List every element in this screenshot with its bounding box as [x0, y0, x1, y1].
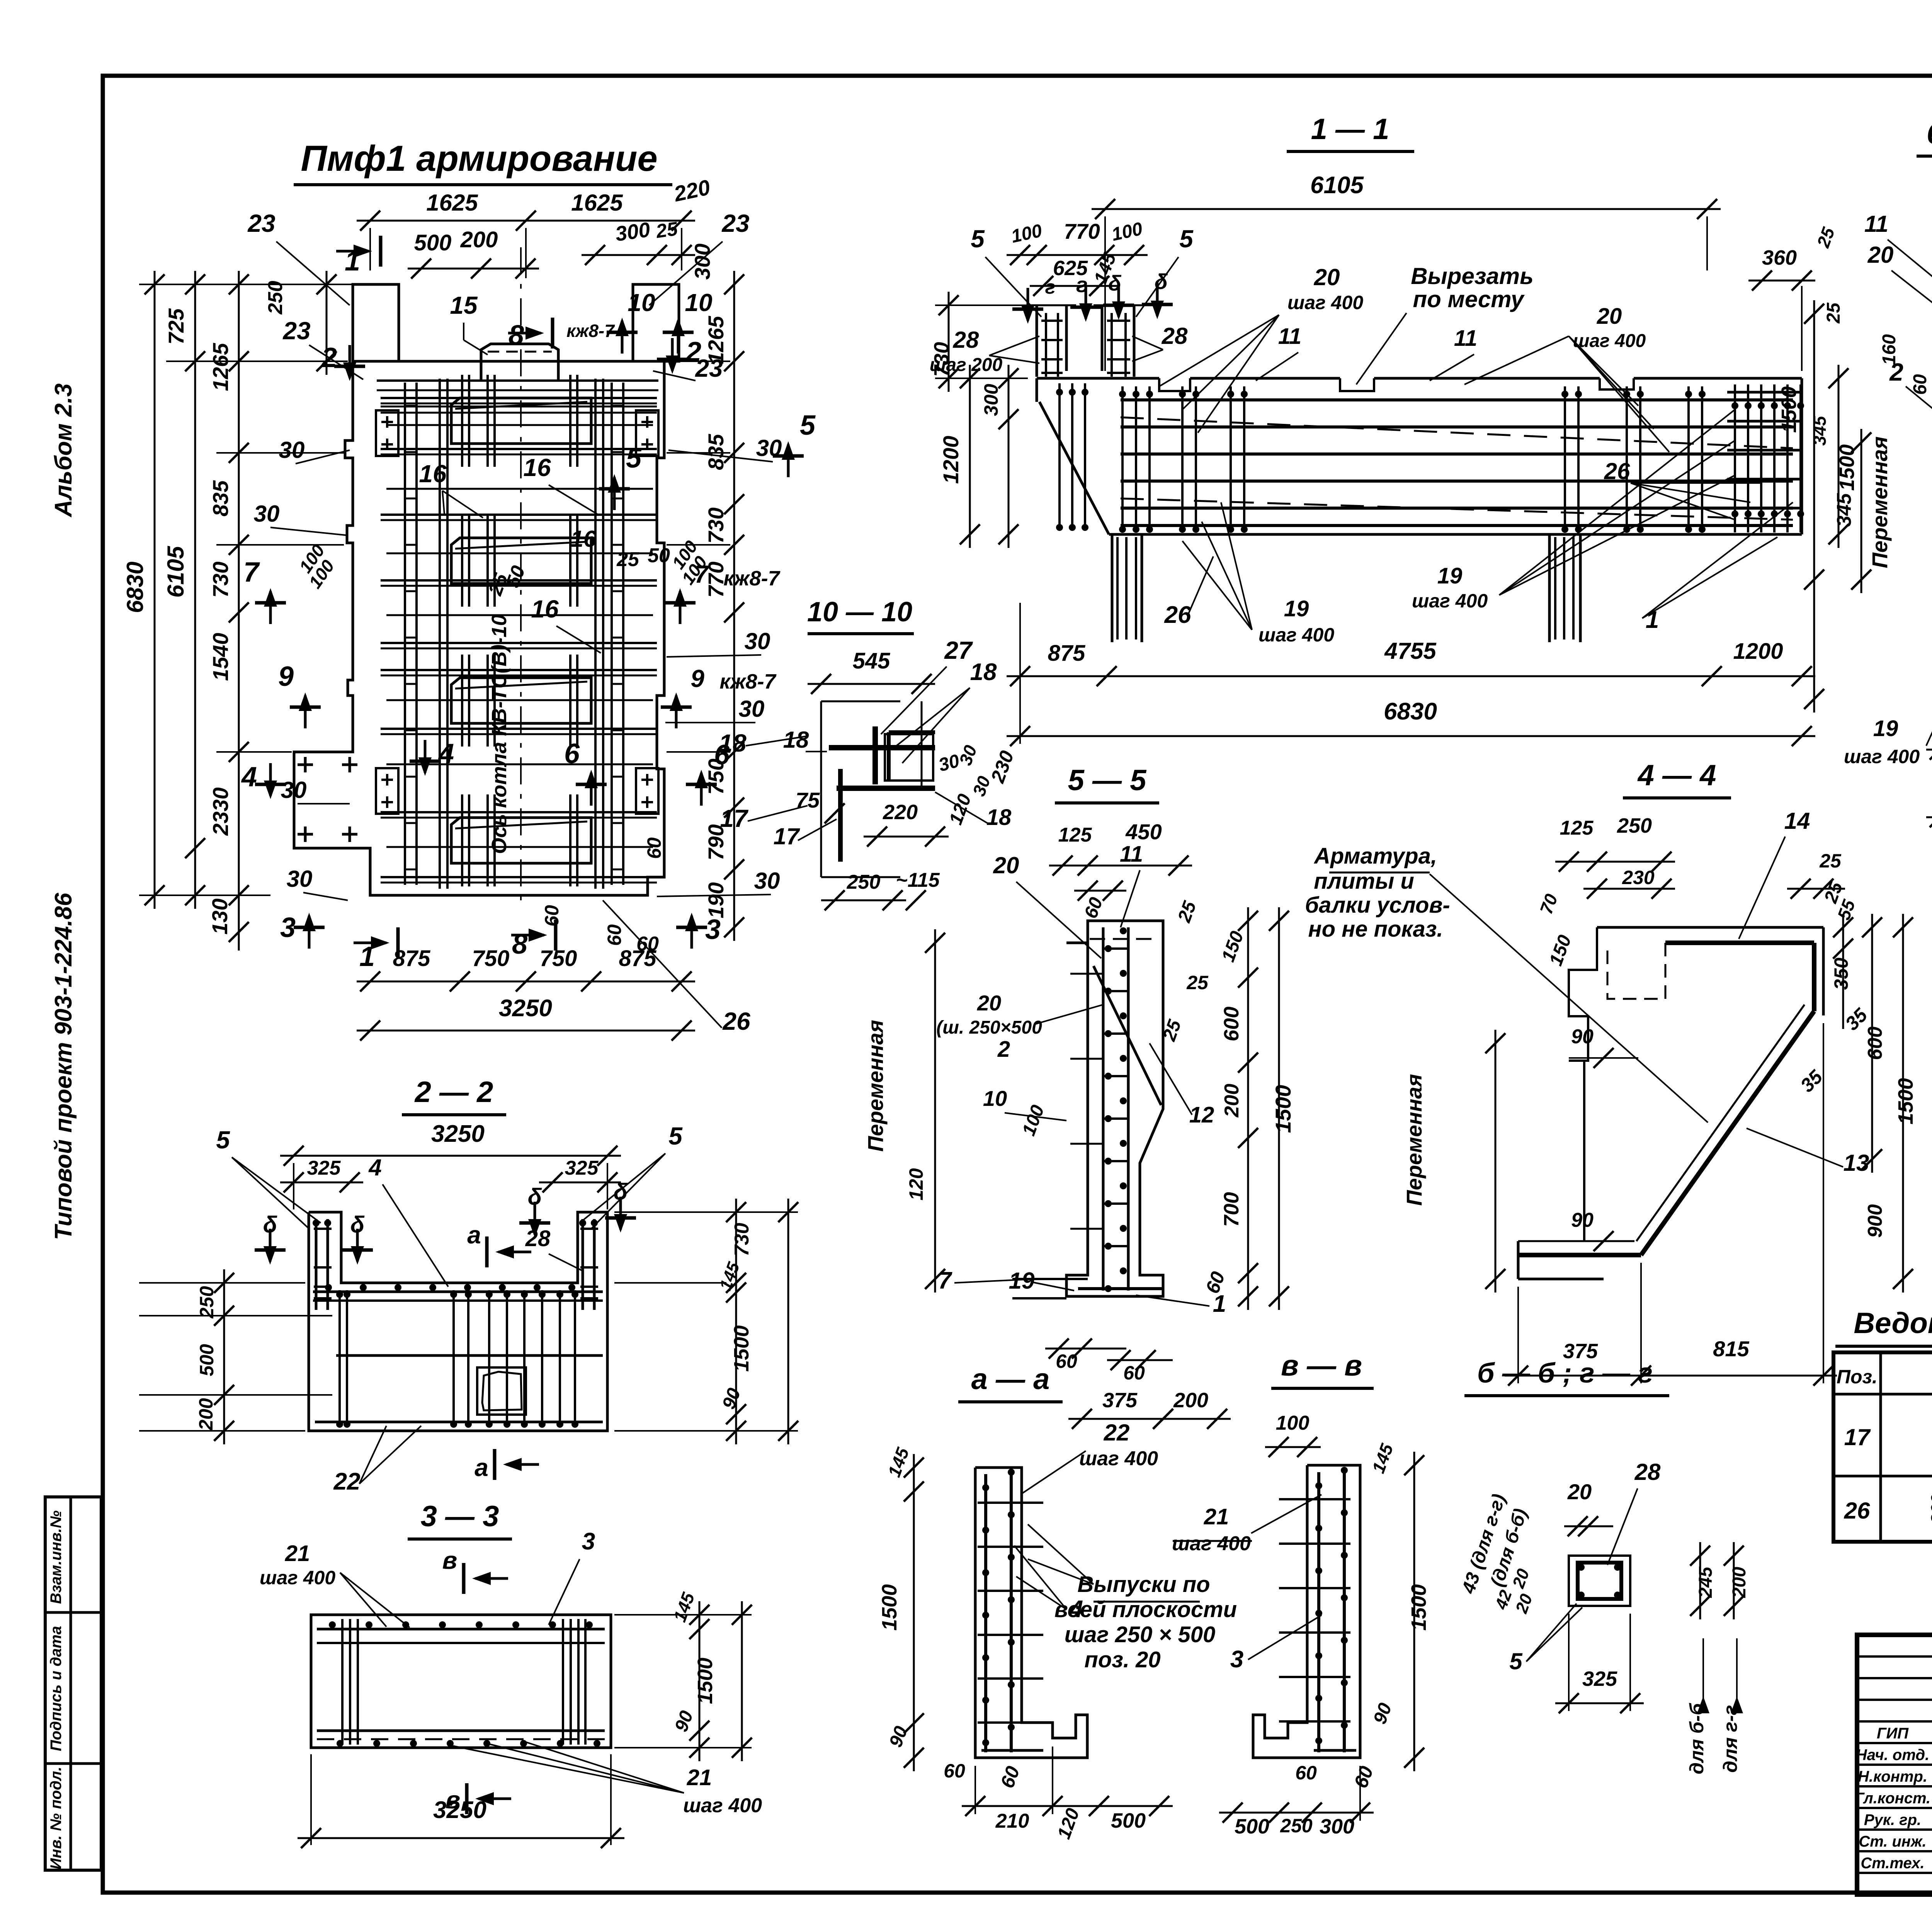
section в-в labels [1172, 1412, 1430, 1838]
svg-text:75: 75 [796, 788, 820, 812]
svg-text:20: 20 [1867, 242, 1894, 268]
section 1-1 bottom dimensions [1007, 603, 1815, 746]
svg-text:130: 130 [207, 898, 232, 934]
table sketch поз.26 [1927, 1494, 1932, 1524]
section 4-4 top dimensions [1555, 808, 1847, 939]
section 5-5 labels [863, 852, 1295, 1429]
svg-text:Ст.тех.: Ст.тех. [1861, 1855, 1924, 1872]
svg-text:1500: 1500 [694, 1658, 717, 1704]
svg-text:12: 12 [1189, 1102, 1214, 1128]
svg-text:для г-г: для г-г [1719, 1705, 1741, 1772]
svg-text:3: 3 [582, 1528, 595, 1555]
svg-text:а: а [467, 1221, 481, 1249]
left stamp strip table [45, 1497, 101, 1870]
svg-text:100: 100 [1276, 1412, 1310, 1434]
svg-text:1200: 1200 [1733, 639, 1783, 664]
section 4-4 note text [1305, 844, 1708, 1122]
svg-text:1500: 1500 [1894, 1078, 1917, 1124]
section 1-1 top dimension 6105 [1092, 172, 1721, 371]
svg-text:21: 21 [285, 1541, 310, 1566]
section 4-4 labels [1402, 891, 1917, 1386]
svg-text:60: 60 [541, 905, 563, 927]
svg-text:шаг 400: шаг 400 [683, 1794, 762, 1817]
svg-text:шаг 400: шаг 400 [1844, 746, 1920, 767]
svg-text:17: 17 [720, 804, 749, 832]
plan horizontal bar pairs [381, 398, 657, 883]
svg-text:28: 28 [1162, 323, 1188, 349]
svg-text:Переменная: Переменная [1402, 1074, 1426, 1206]
svg-text:30: 30 [287, 866, 313, 892]
svg-text:1540: 1540 [208, 633, 233, 681]
svg-text:5: 5 [800, 410, 816, 441]
svg-text:25: 25 [1186, 972, 1209, 993]
svg-text:17: 17 [1844, 1424, 1871, 1450]
section 10-10 dimension 545 [808, 648, 935, 694]
svg-text:325: 325 [307, 1157, 341, 1179]
section в-в rebar [1279, 1467, 1356, 1752]
svg-text:60: 60 [643, 837, 665, 859]
section 2-2 rebar [313, 1219, 603, 1428]
svg-text:730: 730 [930, 342, 953, 377]
svg-text:10: 10 [628, 289, 655, 316]
svg-text:1625: 1625 [571, 190, 623, 216]
svg-text:балки услов-: балки услов- [1305, 893, 1450, 918]
svg-text:250: 250 [1280, 1815, 1313, 1837]
section 5-5 wall outline [1012, 921, 1163, 1298]
svg-text:Пмф1 армирование: Пмф1 армирование [301, 138, 657, 179]
svg-text:Гл.конст.: Гл.конст. [1855, 1790, 1930, 1807]
svg-text:шаг 400: шаг 400 [1287, 292, 1363, 313]
svg-text:Типовой проект 903-1-224.86: Типовой проект 903-1-224.86 [50, 893, 77, 1240]
svg-text:60: 60 [1056, 1350, 1077, 1372]
svg-text:2330: 2330 [208, 787, 233, 836]
svg-text:11: 11 [1120, 842, 1143, 867]
svg-text:725: 725 [164, 308, 188, 344]
svg-text:3250: 3250 [431, 1121, 485, 1147]
svg-text:5: 5 [216, 1126, 230, 1154]
section 6-6 title [1917, 117, 1932, 156]
svg-text:3250: 3250 [433, 1797, 486, 1823]
svg-text:450: 450 [1125, 820, 1162, 844]
section а-а wall [975, 1468, 1087, 1758]
svg-text:4755: 4755 [1384, 638, 1437, 664]
svg-text:(ш. 250×500: (ш. 250×500 [936, 1017, 1042, 1038]
svg-text:835: 835 [208, 480, 233, 516]
svg-text:Переменная: Переменная [1867, 436, 1892, 568]
svg-text:~115: ~115 [896, 869, 940, 891]
svg-text:Ведомость деталей: Ведомость деталей [1854, 1307, 1932, 1340]
svg-text:700: 700 [1220, 1192, 1243, 1227]
svg-text:21: 21 [687, 1765, 712, 1790]
svg-text:250: 250 [196, 1286, 218, 1319]
svg-text:545: 545 [853, 648, 891, 673]
plan stirrup pairs at slots [462, 375, 577, 886]
svg-text:200: 200 [195, 1398, 217, 1431]
svg-text:16: 16 [419, 460, 447, 488]
svg-text:г: г [1045, 276, 1056, 298]
section 10-10 title [807, 597, 914, 634]
svg-text:Поз.: Поз. [1837, 1366, 1878, 1388]
margin text Альбом 2.3 [50, 383, 77, 518]
svg-text:19: 19 [1284, 596, 1309, 621]
plan vertical rebar ladders [405, 383, 623, 885]
svg-text:815: 815 [1713, 1337, 1749, 1361]
plan anchor plates with + marks [298, 410, 658, 842]
svg-text:3 — 3: 3 — 3 [421, 1500, 499, 1533]
svg-text:20: 20 [1567, 1480, 1592, 1504]
svg-text:17: 17 [774, 823, 800, 849]
svg-text:кж8-7: кж8-7 [719, 670, 777, 693]
section 5-5 rebar [1070, 927, 1163, 1292]
title block signature table [1855, 1635, 1932, 1895]
table sketch поз.17 [1929, 1387, 1932, 1469]
svg-text:900: 900 [1864, 1204, 1886, 1238]
svg-text:90: 90 [1571, 1209, 1594, 1231]
svg-text:25: 25 [1819, 850, 1842, 872]
section 1-1 title [1287, 113, 1414, 151]
svg-text:шаг 250 × 500: шаг 250 × 500 [1065, 1622, 1216, 1647]
svg-text:28: 28 [1634, 1459, 1661, 1485]
svg-text:30: 30 [279, 437, 305, 463]
svg-text:20: 20 [977, 991, 1001, 1015]
svg-text:6830: 6830 [122, 561, 148, 613]
svg-text:18: 18 [970, 659, 997, 685]
table Ведомость деталей title [1835, 1307, 1932, 1346]
svg-text:18: 18 [719, 729, 747, 757]
svg-text:30: 30 [745, 628, 770, 654]
margin text Типовой проект 903-1-224.86 [50, 893, 77, 1240]
section а-а rebar [978, 1469, 1043, 1752]
svg-text:1200: 1200 [939, 436, 963, 484]
svg-text:20: 20 [993, 852, 1019, 878]
svg-text:11: 11 [1278, 324, 1301, 349]
svg-text:Арматура,: Арматура, [1313, 844, 1437, 869]
svg-text:23: 23 [721, 209, 749, 237]
svg-text:26: 26 [722, 1007, 750, 1035]
svg-text:1625: 1625 [426, 190, 478, 216]
svg-text:60: 60 [944, 1760, 965, 1782]
svg-text:30: 30 [254, 501, 280, 527]
svg-text:5: 5 [626, 443, 642, 474]
plan outline concrete [294, 284, 679, 895]
svg-text:28: 28 [525, 1226, 551, 1251]
section 1-1 left chain dimensions [930, 292, 1028, 548]
svg-text:1500: 1500 [1271, 1085, 1295, 1133]
svg-text:13: 13 [1844, 1150, 1869, 1176]
svg-text:300: 300 [690, 243, 714, 279]
svg-text:1 — 1: 1 — 1 [1311, 113, 1389, 146]
plan bottom dimension lines [357, 946, 695, 1041]
svg-text:шаг 400: шаг 400 [260, 1567, 335, 1588]
svg-text:4: 4 [368, 1155, 381, 1180]
svg-text:Выпуски по: Выпуски по [1077, 1572, 1210, 1597]
svg-text:730: 730 [208, 561, 233, 597]
svg-text:Ст. инж.: Ст. инж. [1859, 1833, 1926, 1850]
svg-text:360: 360 [1762, 246, 1797, 269]
svg-text:345: 345 [1833, 493, 1855, 527]
svg-text:16: 16 [571, 526, 597, 552]
svg-text:25: 25 [616, 548, 639, 571]
svg-text:6 — 6·: 6 — 6· [1927, 117, 1932, 150]
section б-б small column [1569, 1556, 1630, 1606]
svg-text:250: 250 [847, 871, 881, 893]
svg-text:5: 5 [1509, 1648, 1523, 1674]
svg-text:23: 23 [247, 209, 275, 237]
svg-text:Переменная: Переменная [863, 1020, 888, 1151]
section 1-1 longitudinal rebar [1121, 400, 1793, 526]
section 10-10 body [821, 701, 935, 877]
section 10-10 labels [774, 636, 1018, 910]
section 1-1 concrete outline [1028, 305, 1802, 642]
svg-text:1265: 1265 [208, 343, 233, 391]
svg-text:а — а: а — а [971, 1363, 1050, 1396]
svg-text:Н.контр.: Н.контр. [1858, 1768, 1927, 1785]
svg-text:835: 835 [704, 434, 728, 470]
svg-text:Нач. отд.: Нач. отд. [1856, 1747, 1929, 1764]
svg-text:19: 19 [1009, 1268, 1035, 1294]
svg-text:11: 11 [1454, 326, 1477, 351]
section 3-3 outline [311, 1615, 611, 1748]
svg-text:30: 30 [754, 868, 780, 894]
svg-text:б — б ; г — г: б — б ; г — г [1477, 1358, 1653, 1389]
svg-text:Инв. № подл.: Инв. № подл. [48, 1767, 65, 1869]
svg-text:350: 350 [1830, 957, 1852, 990]
svg-text:500: 500 [414, 230, 452, 255]
svg-text:19: 19 [1437, 563, 1463, 588]
svg-text:4 — 4: 4 — 4 [1637, 759, 1716, 792]
section 1-1 labels and leaders [1159, 263, 1793, 646]
svg-text:190: 190 [704, 882, 728, 918]
svg-text:1500: 1500 [1407, 1584, 1430, 1631]
svg-text:1500: 1500 [730, 1325, 753, 1372]
svg-text:60: 60 [636, 933, 659, 955]
svg-text:250: 250 [1929, 1428, 1932, 1459]
svg-text:6830: 6830 [1384, 698, 1437, 725]
svg-text:125: 125 [1058, 824, 1092, 846]
svg-text:750: 750 [540, 946, 577, 971]
view plan ПМФ1 армирование title [294, 138, 672, 185]
svg-text:125: 125 [1560, 817, 1594, 839]
plan leader labels 23 30 15 16 [247, 209, 808, 1035]
svg-text:26: 26 [1164, 602, 1191, 628]
svg-text:1: 1 [1213, 1291, 1226, 1317]
svg-text:875: 875 [1048, 641, 1086, 666]
svg-text:1500: 1500 [878, 1584, 901, 1631]
section 2-2 title [402, 1076, 506, 1115]
svg-text:5: 5 [1179, 225, 1194, 253]
svg-text:730: 730 [731, 1223, 753, 1257]
svg-text:всей плоскости: всей плоскости [1054, 1597, 1237, 1622]
svg-text:7: 7 [243, 557, 260, 588]
svg-text:19: 19 [1873, 716, 1898, 741]
plan right dimension chain [667, 243, 744, 941]
svg-text:60: 60 [1295, 1762, 1317, 1784]
svg-text:250: 250 [1617, 814, 1652, 837]
svg-text:200: 200 [1221, 1084, 1243, 1118]
svg-text:Подпись и дата: Подпись и дата [48, 1626, 65, 1751]
svg-text:600: 600 [1864, 1027, 1886, 1060]
svg-text:120: 120 [905, 1168, 927, 1201]
svg-text:200: 200 [1173, 1389, 1208, 1412]
svg-text:300: 300 [980, 384, 1002, 416]
svg-text:60: 60 [604, 924, 625, 946]
svg-text:30: 30 [756, 435, 782, 461]
svg-text:325: 325 [1582, 1667, 1617, 1690]
svg-text:10: 10 [983, 1086, 1007, 1111]
svg-text:11: 11 [1864, 211, 1888, 237]
plan section marks and callouts [241, 236, 816, 972]
svg-text:60: 60 [1910, 374, 1930, 395]
section б-б г-г title [1464, 1358, 1669, 1396]
svg-text:25: 25 [1823, 302, 1844, 324]
svg-text:плиты и: плиты и [1314, 869, 1414, 894]
plan vertical rails [440, 379, 603, 889]
section 2-2 top dimensions [280, 1121, 621, 1287]
svg-text:30: 30 [739, 696, 765, 722]
svg-text:200: 200 [460, 227, 498, 252]
svg-text:375: 375 [1102, 1389, 1138, 1412]
svg-text:шаг 400: шаг 400 [1412, 590, 1488, 612]
section 1-1 stirrups [1041, 313, 1804, 639]
title block outline [1857, 1635, 1932, 1895]
svg-text:1: 1 [345, 246, 360, 277]
section 6-6 labels [1777, 211, 1932, 843]
svg-text:300: 300 [1927, 1494, 1932, 1524]
section 3-3 rebar [317, 1619, 605, 1747]
svg-text:300: 300 [1320, 1815, 1354, 1838]
section а-а title [958, 1363, 1063, 1402]
section 5-5 top dimensions [1049, 820, 1192, 927]
svg-text:16: 16 [531, 595, 559, 623]
svg-text:250: 250 [264, 281, 287, 315]
svg-text:6105: 6105 [163, 546, 189, 598]
section 4-4 concrete and mesh [1518, 927, 1823, 1279]
svg-text:шаг 400: шаг 400 [1172, 1532, 1251, 1555]
svg-text:60: 60 [1123, 1362, 1145, 1384]
svg-text:Взам.инв.№: Взам.инв.№ [48, 1510, 65, 1604]
svg-text:5: 5 [971, 225, 985, 253]
svg-text:90: 90 [1571, 1026, 1594, 1048]
svg-text:поз. 20: поз. 20 [1084, 1647, 1160, 1672]
svg-text:345: 345 [1810, 415, 1830, 446]
svg-text:3250: 3250 [499, 995, 552, 1022]
svg-text:220: 220 [883, 801, 918, 824]
svg-text:1500: 1500 [1777, 386, 1801, 433]
svg-text:в: в [442, 1546, 457, 1574]
section 2-2 concrete U outline [309, 1212, 607, 1431]
plan left dimension chains [122, 271, 353, 951]
section в-в title [1271, 1349, 1374, 1388]
section 4-4 title [1623, 759, 1731, 798]
svg-text:200: 200 [1729, 1567, 1750, 1598]
table Ведомость деталей grid [1833, 1352, 1932, 1542]
svg-text:25: 25 [654, 218, 679, 242]
svg-text:210: 210 [995, 1810, 1029, 1832]
svg-text:750: 750 [472, 946, 510, 971]
svg-text:20: 20 [1314, 264, 1340, 290]
svg-text:10: 10 [685, 289, 712, 316]
svg-text:Рук. гр.: Рук. гр. [1864, 1811, 1921, 1828]
svg-text:5 — 5: 5 — 5 [1068, 764, 1147, 797]
svg-text:3: 3 [280, 912, 296, 943]
section 3-3 labels [260, 1528, 762, 1848]
svg-text:Альбом 2.3: Альбом 2.3 [50, 383, 77, 518]
section 1-1 left small dimensions [930, 219, 1194, 375]
svg-text:15: 15 [450, 291, 478, 319]
svg-text:шаг 400: шаг 400 [1259, 624, 1334, 646]
svg-text:23: 23 [282, 317, 310, 345]
svg-text:5: 5 [668, 1122, 683, 1150]
svg-text:14: 14 [1784, 808, 1810, 834]
svg-text:1: 1 [359, 941, 375, 972]
svg-text:30: 30 [281, 777, 307, 803]
svg-text:1500: 1500 [1835, 444, 1859, 491]
section а-а labels [878, 1420, 1237, 1842]
section 2-2 labels [139, 1122, 798, 1495]
svg-text:8: 8 [512, 929, 527, 960]
plan rebar slots openings [451, 398, 591, 863]
svg-text:3: 3 [705, 914, 721, 945]
section 1-1 right chain dimensions [1748, 224, 1859, 548]
svg-text:16: 16 [523, 454, 551, 481]
svg-text:300: 300 [614, 218, 652, 246]
svg-text:27: 27 [944, 636, 973, 664]
svg-text:4: 4 [241, 762, 257, 793]
svg-text:2 — 2: 2 — 2 [414, 1076, 493, 1109]
svg-text:3: 3 [1230, 1646, 1243, 1673]
svg-text:кж8-7: кж8-7 [723, 567, 781, 590]
svg-text:770: 770 [1064, 219, 1100, 243]
svg-text:8: 8 [509, 320, 524, 351]
svg-text:22: 22 [333, 1468, 361, 1495]
svg-text:4: 4 [438, 738, 454, 769]
section 3-3 title [408, 1500, 512, 1539]
plan top dimension lines [264, 175, 712, 375]
svg-text:18: 18 [986, 805, 1012, 830]
svg-text:245: 245 [1696, 1566, 1716, 1598]
svg-text:600: 600 [1220, 1007, 1243, 1041]
svg-text:28: 28 [953, 327, 979, 353]
section б-б labels [1458, 1459, 1750, 1774]
section 5-5 title [1055, 764, 1159, 803]
svg-text:6105: 6105 [1310, 172, 1364, 199]
svg-text:шаг 400: шаг 400 [1079, 1447, 1158, 1470]
svg-text:но не показ.: но не показ. [1308, 917, 1443, 942]
plan center axis Ось котла [488, 247, 521, 900]
svg-text:26: 26 [1604, 458, 1630, 484]
svg-text:325: 325 [565, 1157, 599, 1179]
svg-text:7: 7 [938, 1267, 952, 1294]
svg-text:9: 9 [278, 661, 294, 692]
svg-text:шаг 400: шаг 400 [1573, 331, 1646, 351]
svg-text:20: 20 [1597, 304, 1622, 329]
svg-text:ГИП: ГИП [1877, 1725, 1909, 1742]
svg-text:21: 21 [1204, 1504, 1229, 1529]
svg-text:2: 2 [997, 1037, 1010, 1062]
svg-text:500: 500 [196, 1344, 218, 1376]
svg-text:26: 26 [1844, 1498, 1870, 1524]
svg-text:730: 730 [704, 507, 728, 543]
svg-text:Вырезать: Вырезать [1411, 263, 1534, 289]
svg-text:160: 160 [1879, 334, 1900, 365]
svg-text:18: 18 [783, 727, 809, 753]
svg-text:9: 9 [690, 665, 704, 692]
svg-text:6: 6 [564, 738, 580, 769]
svg-text:500: 500 [1111, 1809, 1146, 1832]
svg-text:10 — 10: 10 — 10 [807, 597, 912, 628]
svg-text:500: 500 [1235, 1815, 1269, 1838]
svg-text:23: 23 [695, 354, 723, 382]
